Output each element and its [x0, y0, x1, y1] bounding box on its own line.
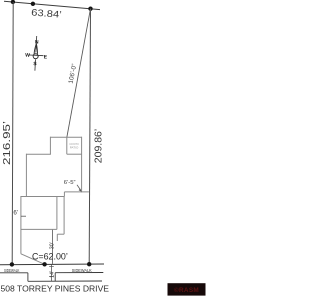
walkway west edge [56, 234, 58, 241]
house upper-left step [49, 137, 51, 155]
compass needle [34, 43, 38, 54]
curb line [28, 280, 102, 282]
svg-text:S: S [33, 61, 37, 67]
apron edge left [27, 273, 29, 282]
svg-text:PATIO: PATIO [70, 146, 79, 150]
garage west wall / driveway edge [20, 196, 22, 254]
house west wall [25, 154, 27, 197]
compass hub [33, 54, 38, 59]
walkway east edge [63, 197, 65, 235]
house front wall [21, 228, 57, 230]
patio east wall lower [81, 137, 83, 193]
sidewalk far edge right segment [55, 272, 103, 274]
svg-text:E: E [44, 54, 48, 60]
entry wall [56, 197, 58, 230]
curve point dot [42, 262, 46, 266]
svg-text:209.86’: 209.86’ [93, 129, 105, 164]
house footprint [21, 137, 89, 265]
svg-text:30’: 30’ [49, 242, 55, 249]
svg-text:W: W [25, 52, 30, 58]
lot corner dot left [10, 262, 14, 266]
svg-text:106’-0”: 106’-0” [68, 63, 79, 84]
east lot boundary [89, 9, 90, 265]
north (rear) lot line [4, 1, 100, 9]
dimension line 30' [51, 230, 53, 264]
house top wall [50, 136, 81, 138]
svg-text:14’: 14’ [49, 271, 55, 278]
svg-text:216.95’: 216.95’ [1, 121, 13, 165]
sidewalk far edge left segment [0, 272, 28, 274]
covered patio box [66, 137, 68, 154]
svg-text:63.84’: 63.84’ [31, 7, 62, 20]
step jog [63, 192, 65, 197]
porch step [57, 233, 64, 235]
svg-text:C=62.00’: C=62.00’ [32, 251, 68, 261]
svg-text:508 TORREY PINES DRIVE: 508 TORREY PINES DRIVE [1, 284, 110, 294]
apron edge right [54, 273, 56, 282]
survey monument dot middle [31, 2, 35, 6]
side setback step line [64, 191, 89, 193]
diagonal tie line 106'-0" [67, 9, 91, 137]
watermark logo [168, 283, 206, 295]
sidewalk near edge [0, 263, 104, 266]
svg-text:6’-5”: 6’-5” [64, 180, 76, 186]
compass rose [24, 35, 48, 71]
dimension 106'-0" [67, 63, 78, 84]
dimension line 14' [51, 265, 53, 282]
survey monument dot left [11, 0, 15, 4]
svg-text:6’: 6’ [13, 210, 18, 217]
lot corner dot right [87, 262, 91, 266]
svg-text:SIDEWALK: SIDEWALK [4, 268, 20, 273]
west lot boundary [12, 2, 13, 264]
svg-text:N: N [35, 39, 39, 45]
covered patio label [69, 142, 79, 150]
driveway flare [21, 254, 45, 264]
svg-text:©RASM: ©RASM [174, 286, 199, 294]
garage north wall [21, 196, 65, 198]
survey monument dot right [88, 7, 92, 11]
